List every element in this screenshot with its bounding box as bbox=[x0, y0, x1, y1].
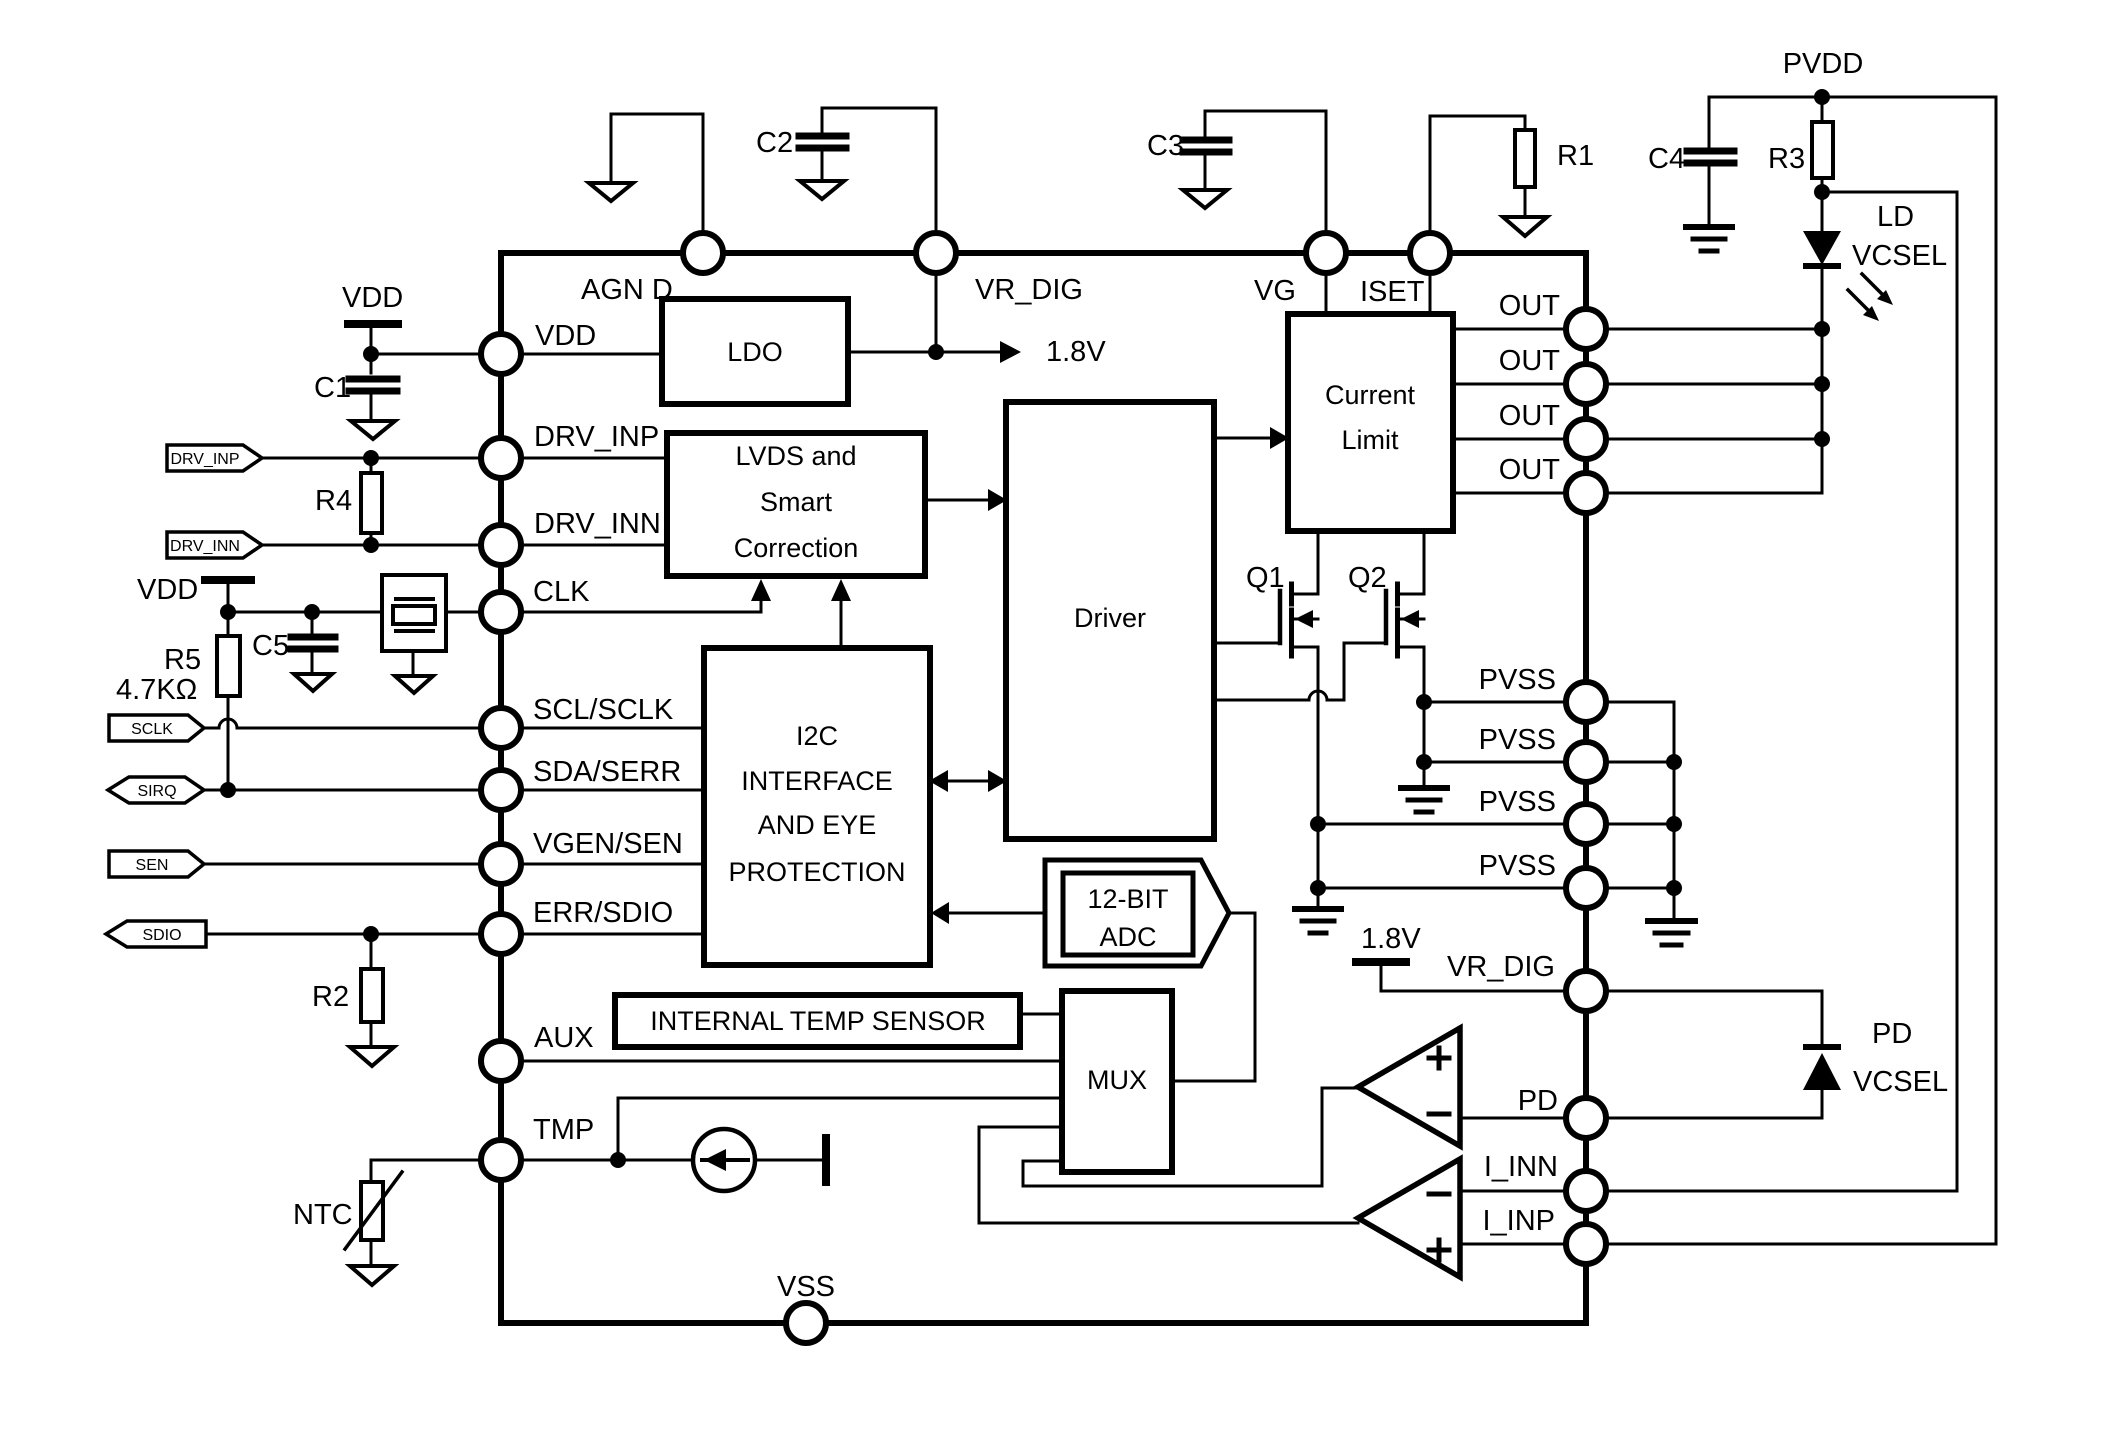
svg-text:AUX: AUX bbox=[534, 1022, 594, 1054]
wire opamp A1 inverting input to PD bbox=[1460, 1117, 1566, 1120]
svg-text:VG: VG bbox=[1254, 275, 1296, 307]
wire I_INN loop to R3 node bbox=[1606, 192, 1957, 1191]
wire VDD to pin bbox=[371, 353, 481, 356]
svg-text:Driver: Driver bbox=[1074, 603, 1146, 633]
svg-text:R5: R5 bbox=[164, 644, 201, 676]
wire SDIO bbox=[206, 933, 481, 936]
ground below C1 bbox=[351, 421, 395, 439]
pin VDD bbox=[481, 334, 521, 374]
ground below C3 bbox=[1183, 190, 1227, 208]
svg-text:R1: R1 bbox=[1557, 140, 1594, 172]
transistor Q1 bbox=[1214, 642, 1280, 645]
node PVDD/R3 junction bbox=[1814, 89, 1830, 105]
wire SEN bbox=[204, 863, 481, 866]
node VDD supply top-left bbox=[348, 320, 398, 328]
op-amp A2 bbox=[1358, 1159, 1460, 1277]
node OUT3/LD junction bbox=[1814, 431, 1830, 447]
pin PVSS1 bbox=[1566, 682, 1606, 722]
svg-text:ERR/SDIO: ERR/SDIO bbox=[533, 897, 673, 929]
tag SIRQ bbox=[108, 777, 204, 803]
svg-text:VCSEL: VCSEL bbox=[1853, 1066, 1948, 1098]
block I2C INTERFACE AND EYE PROTECTION bbox=[704, 648, 930, 965]
block Current Limit bbox=[1288, 314, 1453, 531]
svg-text:MUX: MUX bbox=[1087, 1065, 1147, 1095]
svg-text:I_INP: I_INP bbox=[1482, 1205, 1555, 1237]
svg-text:PVSS: PVSS bbox=[1479, 664, 1556, 696]
svg-text:R2: R2 bbox=[312, 981, 349, 1013]
pin VR_DIG right bbox=[1566, 971, 1606, 1011]
block Driver bbox=[1006, 402, 1214, 839]
ground below Q1 bbox=[1317, 888, 1320, 906]
node Q1/PVSS3 junction bbox=[1310, 816, 1326, 832]
wire VGEN to I2C bbox=[521, 863, 704, 866]
chassis ground below PVSS rail bbox=[1648, 918, 1695, 924]
capacitor C4 bbox=[1708, 97, 1711, 147]
node PVSS4 right junction bbox=[1666, 880, 1682, 896]
ground below R1 bbox=[1503, 217, 1547, 236]
ground below C5 bbox=[294, 674, 332, 691]
capacitor C3 bbox=[1205, 111, 1326, 232]
svg-text:VGEN/SEN: VGEN/SEN bbox=[533, 828, 683, 860]
svg-text:DRV_INP: DRV_INP bbox=[170, 451, 239, 468]
wire PD bbox=[1606, 1117, 1822, 1120]
svg-text:OUT: OUT bbox=[1499, 400, 1561, 432]
svg-text:VCSEL: VCSEL bbox=[1852, 240, 1947, 272]
svg-text:ADC: ADC bbox=[1099, 922, 1156, 952]
svg-text:VR_DIG: VR_DIG bbox=[975, 274, 1083, 306]
ground AGND bbox=[589, 183, 633, 201]
tag DRV_INN bbox=[167, 532, 262, 558]
node PVSS3 right junction bbox=[1666, 816, 1682, 832]
wire VDD pin to LDO bbox=[521, 353, 662, 356]
svg-text:OUT: OUT bbox=[1499, 345, 1561, 377]
wire PVSS3 bbox=[1318, 823, 1566, 826]
svg-text:Q2: Q2 bbox=[1348, 562, 1387, 594]
wire SDA to I2C bbox=[521, 789, 704, 792]
wire LVDS to Driver arrow bbox=[925, 499, 988, 502]
node Q1/PVSS4 junction bbox=[1310, 880, 1326, 896]
pin I_INP bbox=[1566, 1224, 1606, 1264]
svg-text:C3: C3 bbox=[1147, 130, 1184, 162]
wire SCL to I2C bbox=[521, 727, 704, 730]
pin TMP bbox=[481, 1140, 521, 1180]
svg-text:VDD: VDD bbox=[342, 282, 403, 314]
svg-text:VR_DIG: VR_DIG bbox=[1447, 951, 1555, 983]
resistor R2 bbox=[370, 934, 373, 969]
pin ERR/SDIO bbox=[481, 914, 521, 954]
svg-text:PROTECTION: PROTECTION bbox=[728, 857, 905, 887]
wire CLK net bbox=[228, 611, 382, 614]
pin VGEN/SEN bbox=[481, 844, 521, 884]
tag DRV_INP bbox=[167, 445, 262, 471]
tag SDIO bbox=[106, 921, 206, 947]
svg-text:SDA/SERR: SDA/SERR bbox=[533, 756, 681, 788]
svg-text:SCLK: SCLK bbox=[131, 721, 173, 738]
wire PVSS1 bbox=[1424, 701, 1566, 704]
resistor R4 bbox=[370, 458, 373, 545]
pin SCL/SCLK bbox=[481, 708, 521, 748]
resistor R3 bbox=[1821, 97, 1824, 122]
chassis ground below C4 bbox=[1686, 224, 1732, 230]
svg-text:DRV_INN: DRV_INN bbox=[170, 538, 240, 555]
node VDD/C1 junction bbox=[363, 346, 379, 362]
pin PD bbox=[1566, 1098, 1606, 1138]
svg-text:SCL/SCLK: SCL/SCLK bbox=[533, 694, 674, 726]
resistor R5 bbox=[227, 612, 230, 636]
svg-text:CLK: CLK bbox=[533, 576, 590, 608]
svg-text:PVDD: PVDD bbox=[1783, 48, 1864, 80]
svg-text:4.7KΩ: 4.7KΩ bbox=[116, 674, 197, 706]
node TMP junction bbox=[610, 1152, 626, 1168]
node LDO/VR_DIG junction bbox=[928, 344, 944, 360]
block 12-BIT ADC bbox=[1045, 860, 1229, 966]
wire LDO output to 1.8V bbox=[848, 351, 1000, 354]
tag SEN bbox=[109, 851, 204, 877]
svg-text:AGN D: AGN D bbox=[581, 274, 673, 306]
svg-text:C2: C2 bbox=[756, 127, 793, 159]
node SDIO/R2 junction bbox=[363, 926, 379, 942]
node VDD supply near CLK bbox=[205, 576, 251, 584]
ground below R2 bbox=[350, 1047, 394, 1066]
wire TMP net bbox=[521, 1159, 693, 1162]
ground below NTC bbox=[350, 1266, 394, 1285]
node Q2/PVSS1 junction bbox=[1416, 694, 1432, 710]
block LVDS and Smart Correction bbox=[667, 433, 925, 576]
svg-text:I2C: I2C bbox=[796, 721, 838, 751]
svg-text:OUT: OUT bbox=[1499, 290, 1561, 322]
svg-text:DRV_INN: DRV_INN bbox=[534, 508, 661, 540]
wire DRV_INN bbox=[262, 544, 481, 547]
node C5 junction bbox=[304, 604, 320, 620]
svg-text:SDIO: SDIO bbox=[142, 927, 181, 944]
svg-text:VDD: VDD bbox=[137, 574, 198, 606]
capacitor C2 bbox=[822, 108, 936, 232]
diode LD VCSEL bbox=[1821, 192, 1824, 231]
pin PVSS4 bbox=[1566, 868, 1606, 908]
pin OUT4 bbox=[1566, 473, 1606, 513]
svg-text:R3: R3 bbox=[1768, 143, 1805, 175]
wire PVSS4 bbox=[1318, 887, 1566, 890]
svg-text:ISET: ISET bbox=[1360, 276, 1425, 308]
pin VG bbox=[1306, 233, 1346, 273]
wire DRV_INN to LVDS bbox=[521, 544, 667, 547]
pin I_INN bbox=[1566, 1171, 1606, 1211]
node DRV_INN/R4 junction bbox=[363, 537, 379, 553]
pin VR_DIG top bbox=[916, 233, 956, 273]
svg-text:R4: R4 bbox=[315, 485, 352, 517]
node VDD/R5/CLK junction bbox=[220, 604, 236, 620]
capacitor C5 bbox=[311, 612, 314, 633]
node SIRQ/R5 junction bbox=[220, 782, 236, 798]
wire opamp A1 output to MUX bbox=[1023, 1088, 1358, 1186]
svg-text:C4: C4 bbox=[1648, 143, 1685, 175]
wire AGND pigtail bbox=[611, 114, 703, 234]
wire VG to Current Limit bbox=[1325, 273, 1328, 314]
svg-text:Current: Current bbox=[1325, 380, 1416, 410]
pin SDA/SERR bbox=[481, 770, 521, 810]
wire VR_DIG right bbox=[1381, 990, 1566, 993]
node PVSS2 right junction bbox=[1666, 754, 1682, 770]
svg-text:Limit: Limit bbox=[1341, 425, 1399, 455]
wire Driver to Q2 gate with hop over Q1 source bbox=[1214, 643, 1386, 700]
svg-text:VDD: VDD bbox=[535, 320, 596, 352]
wire ERR to I2C bbox=[521, 933, 704, 936]
pin ISET bbox=[1410, 233, 1450, 273]
node PVDD rail bbox=[1709, 96, 1996, 99]
svg-text:1.8V: 1.8V bbox=[1361, 923, 1421, 955]
node 1.8V supply right bbox=[1356, 958, 1406, 966]
main IC boundary U1 bbox=[501, 253, 1586, 1323]
LD light arrows bbox=[1862, 274, 1884, 296]
svg-text:SIRQ: SIRQ bbox=[137, 783, 176, 800]
pin OUT1 bbox=[1566, 309, 1606, 349]
wire Driver to Current Limit arrow bbox=[1214, 437, 1270, 440]
wire I_INP loop to PVDD bbox=[1606, 97, 1996, 1244]
tag SCLK bbox=[109, 715, 204, 741]
node Q2/PVSS2 junction bbox=[1416, 754, 1432, 770]
ground below Q2 bbox=[1423, 762, 1426, 785]
wire I2C to LVDS arrow bbox=[840, 601, 843, 648]
svg-text:Q1: Q1 bbox=[1246, 562, 1285, 594]
svg-text:OUT: OUT bbox=[1499, 454, 1561, 486]
svg-text:INTERFACE: INTERFACE bbox=[741, 766, 893, 796]
svg-text:PVSS: PVSS bbox=[1479, 850, 1556, 882]
svg-text:TMP: TMP bbox=[533, 1114, 594, 1146]
block INTERNAL TEMP SENSOR bbox=[615, 995, 1020, 1047]
svg-text:Smart: Smart bbox=[760, 487, 833, 517]
wire opamp A2 non-inverting input to I_INP bbox=[1460, 1243, 1566, 1246]
svg-text:LVDS and: LVDS and bbox=[735, 441, 856, 471]
wire MUX to ADC bbox=[1172, 913, 1255, 1081]
node R3/LD junction bbox=[1814, 184, 1830, 200]
svg-text:I_INN: I_INN bbox=[1484, 1151, 1558, 1183]
transistor Q2 bbox=[1384, 591, 1389, 643]
svg-text:SEN: SEN bbox=[136, 857, 169, 874]
node OUT2/LD junction bbox=[1814, 376, 1830, 392]
svg-text:C1: C1 bbox=[314, 372, 351, 404]
svg-text:PVSS: PVSS bbox=[1479, 786, 1556, 818]
wire OUT1 bbox=[1453, 328, 1566, 331]
wire OUT4 bbox=[1453, 492, 1566, 495]
svg-text:NTC: NTC bbox=[293, 1199, 353, 1231]
wire AUX to MUX bbox=[521, 1060, 1062, 1063]
pin VSS bbox=[786, 1303, 826, 1343]
block LDO bbox=[662, 299, 848, 404]
ground below C2 bbox=[800, 181, 844, 199]
block MUX bbox=[1062, 991, 1172, 1172]
svg-text:DRV_INP: DRV_INP bbox=[534, 421, 659, 453]
svg-text:LDO: LDO bbox=[727, 337, 783, 367]
svg-text:PD: PD bbox=[1518, 1085, 1558, 1117]
wire I2C-Driver bidirectional arrow bbox=[948, 780, 988, 783]
pin DRV_INN bbox=[481, 525, 521, 565]
pin OUT3 bbox=[1566, 419, 1606, 459]
wire DRV_INP to LVDS bbox=[521, 457, 667, 460]
pin PVSS3 bbox=[1566, 804, 1606, 844]
wire temp sensor to MUX bbox=[1020, 1013, 1062, 1016]
svg-text:PVSS: PVSS bbox=[1479, 724, 1556, 756]
wire R3 junction to right rail bbox=[1822, 191, 1957, 194]
svg-text:C5: C5 bbox=[252, 630, 289, 662]
svg-text:AND EYE: AND EYE bbox=[758, 810, 877, 840]
wire SIRQ bbox=[204, 789, 481, 792]
wire ISET to Current Limit bbox=[1429, 273, 1432, 314]
ground below crystal bbox=[412, 651, 415, 676]
svg-text:12-BIT: 12-BIT bbox=[1087, 884, 1168, 914]
wire opamp A2 inverting input to I_INN bbox=[1460, 1190, 1566, 1193]
wire SCLK with hop over R5 bbox=[204, 719, 481, 728]
pin CLK bbox=[481, 592, 521, 632]
svg-text:VSS: VSS bbox=[777, 1271, 835, 1303]
thermistor NTC bbox=[371, 1159, 481, 1162]
wire CLK to LVDS arrow bbox=[522, 601, 761, 612]
wire PVSS2 bbox=[1424, 761, 1566, 764]
node DRV_INP/R4 junction bbox=[363, 450, 379, 466]
node OUT1/LD junction bbox=[1814, 321, 1830, 337]
wire opamp A2 output to MUX bbox=[979, 1127, 1358, 1223]
pin AGND bbox=[683, 233, 723, 273]
pin PVSS2 bbox=[1566, 742, 1606, 782]
pin DRV_INP bbox=[481, 438, 521, 478]
wire OUT2 bbox=[1453, 383, 1566, 386]
current source CS1 bbox=[693, 1129, 755, 1191]
wire DRV_INP bbox=[262, 457, 481, 460]
wire ADC to I2C arrow bbox=[949, 912, 1045, 915]
svg-text:PD: PD bbox=[1872, 1018, 1912, 1050]
resistor R1 bbox=[1430, 116, 1525, 233]
svg-text:INTERNAL TEMP SENSOR: INTERNAL TEMP SENSOR bbox=[650, 1006, 986, 1036]
svg-text:1.8V: 1.8V bbox=[1046, 336, 1106, 368]
svg-text:Correction: Correction bbox=[734, 533, 859, 563]
diode PD VCSEL bbox=[1806, 1044, 1838, 1050]
crystal Y1 bbox=[382, 575, 446, 651]
op-amp A1 bbox=[1358, 1028, 1460, 1146]
capacitor C1 bbox=[370, 354, 373, 373]
wire OUT3 bbox=[1453, 438, 1566, 441]
svg-text:LD: LD bbox=[1877, 201, 1914, 233]
pin AUX bbox=[481, 1041, 521, 1081]
pin OUT2 bbox=[1566, 364, 1606, 404]
